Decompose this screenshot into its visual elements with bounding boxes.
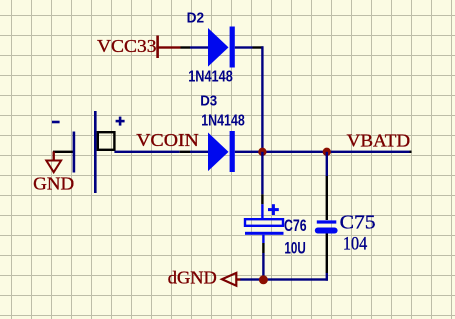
wire — [114, 151, 179, 153]
battery BT body square (black) — [98, 132, 115, 150]
capacitor C76 top plate — [245, 219, 283, 226]
diode D2 pin 1 (black) — [181, 46, 191, 48]
svg-text:D2: D2 — [187, 9, 205, 26]
wire (D3 cathode to VBATD end) — [235, 151, 412, 153]
svg-text:VCC33: VCC33 — [97, 36, 157, 56]
battery BT negative pin (black) — [53, 151, 74, 153]
ground GND — [33, 152, 74, 194]
svg-text:VBATD: VBATD — [347, 131, 411, 151]
capacitor C76 pin 1 (blue) — [261, 204, 263, 218]
battery BT minus label — [52, 121, 60, 124]
svg-text:1N4148: 1N4148 — [201, 112, 245, 129]
capacitor C76 pin 1 (black) — [261, 194, 263, 204]
wire (node A down) — [261, 152, 263, 195]
svg-text:GND: GND — [33, 174, 74, 194]
capacitor C76 plus label — [268, 204, 279, 215]
capacitor C75 pin 2 (black) — [326, 234, 328, 274]
node B junction — [323, 148, 331, 156]
wire (bus dGND to C76) — [240, 278, 263, 280]
battery BT long plate — [94, 111, 97, 193]
wire (C76 to bus) — [262, 253, 264, 280]
wire (node B down) — [326, 152, 328, 176]
svg-text:1N4148: 1N4148 — [188, 69, 233, 86]
wire — [190, 46, 208, 48]
diode D2 pin 2 (black) — [253, 46, 264, 48]
wire end tip — [410, 151, 412, 153]
node A junction — [258, 148, 266, 156]
capacitor C75 pin 1 (black) — [326, 176, 328, 220]
svg-text:10U: 10U — [284, 240, 305, 258]
diode D3 — [208, 131, 235, 172]
capacitor C76 pin 2 (black) — [262, 243, 264, 253]
node C junction — [259, 275, 268, 284]
power port VCC33 — [97, 36, 181, 59]
wire (vertical from D2 to node A) — [261, 46, 263, 152]
svg-text:VCOIN: VCOIN — [136, 130, 199, 150]
capacitor C75 bottom plate — [315, 228, 338, 234]
diode D2 — [208, 27, 235, 68]
svg-text:dGND: dGND — [168, 268, 217, 288]
wire (C75 elbow to bus) — [263, 273, 328, 281]
wire — [190, 151, 208, 153]
battery BT short plate — [73, 132, 76, 173]
capacitor C76 pin 2 (blue) — [262, 235, 264, 243]
power port dGND — [168, 268, 241, 288]
capacitor C76 bottom plate — [245, 232, 284, 235]
svg-text:C75: C75 — [340, 213, 376, 234]
capacitor C75 top plate — [317, 220, 337, 223]
svg-text:D3: D3 — [200, 93, 217, 110]
diode D3 pin 1 (black) — [180, 151, 190, 153]
wire — [235, 46, 253, 48]
svg-text:104: 104 — [343, 235, 367, 255]
battery BT plus label — [116, 117, 125, 126]
svg-text:C76: C76 — [284, 217, 307, 235]
